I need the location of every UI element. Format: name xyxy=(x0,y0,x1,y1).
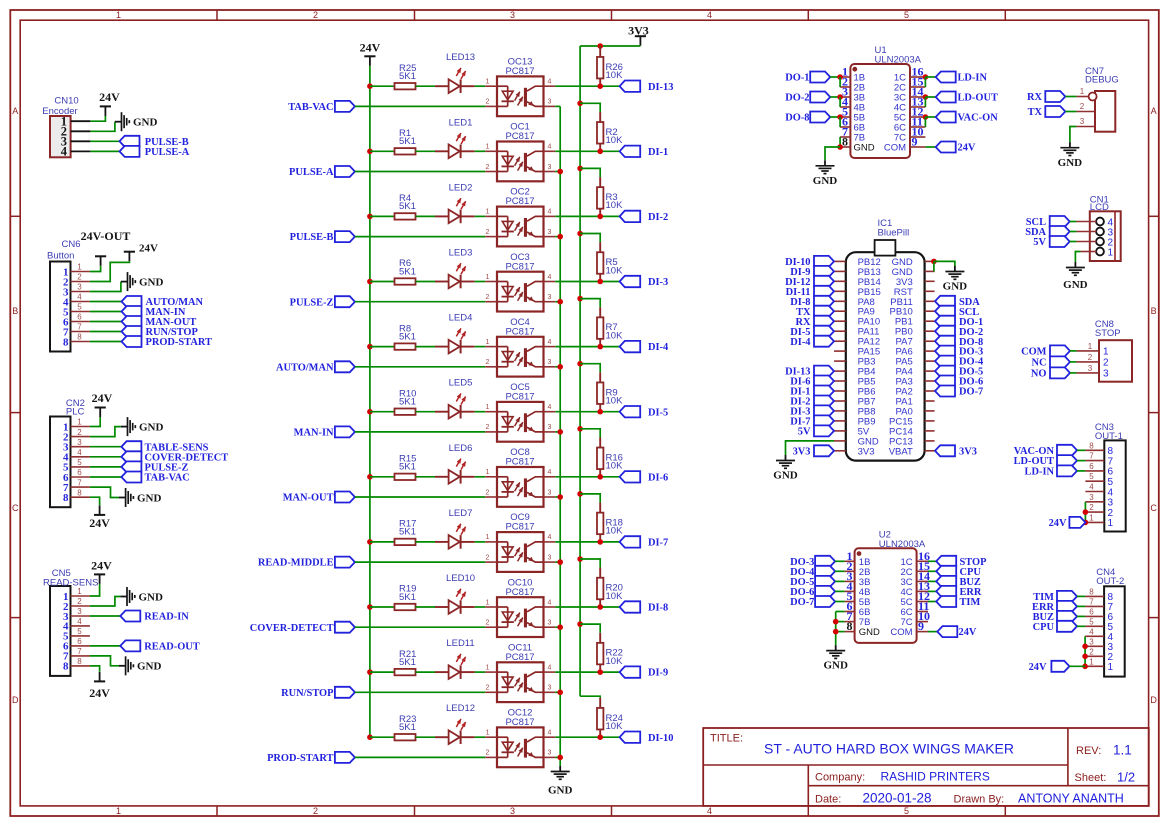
label OUT-2 xyxy=(1096,576,1124,587)
wire SDA to CN1 xyxy=(1070,231,1077,233)
net flag NO xyxy=(1031,367,1070,379)
pin 11 U2 xyxy=(917,599,930,613)
pin PB14 IC1 left xyxy=(834,280,846,282)
svg-text:3: 3 xyxy=(548,359,552,366)
pin 6 CN6 xyxy=(71,313,90,322)
LED LED1 xyxy=(435,117,475,158)
pin PA7 IC1 right xyxy=(925,340,935,342)
svg-text:STOP: STOP xyxy=(1095,328,1121,339)
pin PA12 IC1 left xyxy=(834,340,846,342)
net flag DI-13 at IC1 PB4 xyxy=(785,366,834,378)
pin 5 U2 xyxy=(845,589,855,603)
pin 13 U1 xyxy=(910,95,925,109)
label U2 xyxy=(879,530,891,541)
svg-text:6: 6 xyxy=(77,313,82,322)
net flag LD-OUT at U1 xyxy=(936,92,998,104)
svg-text:3: 3 xyxy=(1088,364,1093,373)
net flag DI-4 at IC1 PA12 xyxy=(790,336,834,348)
svg-text:RASHID PRINTERS: RASHID PRINTERS xyxy=(881,770,990,784)
LED LED3 xyxy=(435,248,475,289)
junction 24V rail ch9 xyxy=(367,669,373,675)
junction 3V3 feed R26 xyxy=(597,43,603,49)
pin 2 CN2 xyxy=(71,428,90,437)
wire OC12 pin4 to DI-10 xyxy=(555,736,619,738)
svg-text:3: 3 xyxy=(1089,637,1094,646)
net flag DO-5 at U2 xyxy=(790,576,835,588)
net flag DO-8 at IC1 PA7 xyxy=(935,336,983,348)
pin 4 U1 xyxy=(840,95,850,109)
wire VAC-ON to CN3 xyxy=(1077,449,1085,451)
svg-text:PROD-START: PROD-START xyxy=(267,753,333,764)
svg-text:9: 9 xyxy=(918,619,924,633)
pin 2 CN1 xyxy=(1076,241,1096,243)
svg-text:CN10: CN10 xyxy=(54,96,78,107)
wire CN7 pin3 to GND xyxy=(1070,127,1077,143)
pin PB12 IC1 left xyxy=(834,260,846,262)
connector CN7 xyxy=(1095,91,1115,132)
svg-text:PULSE-A: PULSE-A xyxy=(289,167,334,178)
wire U2 pin16 to STOP xyxy=(928,560,936,562)
svg-text:GND: GND xyxy=(548,785,573,797)
wire R8 to LED4 xyxy=(416,346,436,348)
svg-text:LCD: LCD xyxy=(1090,202,1109,213)
net flag DI-1 xyxy=(620,146,669,158)
svg-text:8: 8 xyxy=(77,488,82,497)
svg-text:8: 8 xyxy=(77,657,82,666)
wire PULSE-B to OC2 pin2 xyxy=(355,236,485,238)
LED LED10 xyxy=(435,573,475,614)
wire OC2 pin4 to DI-2 xyxy=(555,215,619,217)
net flag PULSE-Z input xyxy=(290,296,355,308)
svg-text:PC817: PC817 xyxy=(505,261,534,272)
svg-text:3V3: 3V3 xyxy=(959,446,977,457)
wire U2 pin15 to CPU xyxy=(928,570,936,572)
svg-text:4: 4 xyxy=(548,339,552,346)
net flag DI-13 xyxy=(620,81,674,93)
svg-text:DO-2: DO-2 xyxy=(785,93,809,104)
wire 24V to R17 xyxy=(370,541,395,543)
svg-text:3: 3 xyxy=(548,489,552,496)
svg-text:3V3: 3V3 xyxy=(628,23,649,37)
svg-text:24V: 24V xyxy=(91,559,112,573)
svg-text:D: D xyxy=(1150,695,1157,705)
svg-text:1: 1 xyxy=(486,730,490,737)
pin PB8 IC1 left xyxy=(834,410,846,412)
net flag TABLE-SENS at CN2 xyxy=(121,441,208,453)
svg-text:10K: 10K xyxy=(606,135,624,146)
junction CN3 pin2 xyxy=(1083,509,1089,515)
svg-text:1: 1 xyxy=(486,664,490,671)
wire DO-7 to U2 pin5 xyxy=(835,601,845,603)
net flag RX xyxy=(1027,91,1065,103)
ground at U2 xyxy=(823,645,848,671)
wire CN6 pin7 to RUN/STOP xyxy=(90,331,122,333)
svg-text:24V: 24V xyxy=(360,40,381,54)
junction U1 pin5 xyxy=(837,114,843,120)
LED LED12 xyxy=(435,703,475,744)
wire DO-2 to U1 pin3 xyxy=(830,96,840,98)
pin 8 CN5 xyxy=(71,657,90,666)
svg-text:DI-13: DI-13 xyxy=(648,82,673,93)
LED LED5 xyxy=(435,378,475,419)
net flag VAC-ON at U1 xyxy=(936,112,999,124)
net flag DO-6 at U2 xyxy=(790,586,835,598)
wire LED1 to OC1 pin1 xyxy=(475,150,486,152)
pin PB6 IC1 left xyxy=(834,390,846,392)
junction 3V3 rail ch1 xyxy=(577,101,583,107)
wire TIM to CN4 xyxy=(1077,595,1085,597)
wire DO-3 to U2 pin1 xyxy=(835,560,845,562)
net flag ERR at U2 xyxy=(936,586,982,598)
wire 3V3 rail to R18 xyxy=(580,494,600,503)
ground at CN10 xyxy=(115,112,158,131)
net flag DI-10 xyxy=(620,732,674,744)
svg-text:READ-IN: READ-IN xyxy=(144,612,189,623)
wire CN10 pin3 to PULSE-B xyxy=(90,140,119,142)
label ULN2003A U2 xyxy=(879,539,926,550)
net flag SDA at CN1 xyxy=(1025,226,1069,238)
pin numbers OC8 xyxy=(486,469,552,496)
wire OC13 pin4 to DI-13 xyxy=(555,85,619,87)
net flag DI-3 xyxy=(620,276,669,288)
svg-text:4: 4 xyxy=(548,730,552,737)
net flag TAB-VAC at CN2 xyxy=(121,472,189,484)
wire BUZ to CN4 xyxy=(1077,615,1085,617)
ground at CN2 upper xyxy=(121,417,164,436)
pin numbers OC4 xyxy=(486,339,552,366)
title block label Sheet: xyxy=(1075,772,1107,784)
net flag DI-9 xyxy=(620,666,669,678)
wire LED7 to OC9 pin1 xyxy=(475,541,486,543)
wire 24V to R23 xyxy=(370,736,395,738)
pin 8 CN2 xyxy=(71,488,90,497)
net flag TX xyxy=(1028,106,1066,118)
svg-text:READ-MIDDLE: READ-MIDDLE xyxy=(258,558,334,569)
svg-text:7: 7 xyxy=(1089,452,1094,461)
svg-text:DI-4: DI-4 xyxy=(790,337,810,348)
wire PROD-START to OC12 pin2 xyxy=(355,756,485,758)
wire U1 pin1 to pin2 xyxy=(839,77,841,87)
resistor R24 10K xyxy=(597,698,623,737)
wire CN6 pin2 to 24V xyxy=(90,261,129,281)
net flag NC xyxy=(1031,356,1070,368)
junction DI-8 xyxy=(597,604,603,610)
pin 3 U2 xyxy=(845,569,855,583)
resistor R7 10K xyxy=(597,307,623,346)
microcontroller IC1 BluePill xyxy=(846,240,925,461)
svg-text:GND: GND xyxy=(773,470,798,482)
ground at IC1 top right xyxy=(943,266,968,293)
wire U1 pin14 to pin13 xyxy=(924,97,926,107)
svg-text:1: 1 xyxy=(77,263,82,272)
svg-text:2: 2 xyxy=(1089,503,1094,512)
svg-text:GND: GND xyxy=(813,175,838,187)
junction 3V3 rail ch7 xyxy=(577,491,583,497)
svg-text:1: 1 xyxy=(486,209,490,216)
svg-text:6: 6 xyxy=(1089,462,1094,471)
optocoupler OC1 PC817 xyxy=(485,122,555,182)
junction 24V rail ch7 xyxy=(367,539,373,545)
label BluePill xyxy=(878,228,910,239)
connector CN3 xyxy=(1104,440,1125,531)
svg-text:ANTONY ANANTH: ANTONY ANANTH xyxy=(1018,792,1124,806)
ground at IC1 bottom left xyxy=(773,455,798,482)
svg-text:24V: 24V xyxy=(92,391,113,405)
svg-text:1: 1 xyxy=(1103,347,1109,358)
pin 4 U2 xyxy=(845,579,855,593)
pin numbers OC9 xyxy=(486,534,552,561)
wire U1 pin14 to LD-OUT xyxy=(925,96,935,98)
connector CN2 xyxy=(50,417,71,508)
svg-text:1/2: 1/2 xyxy=(1117,770,1135,785)
junction DI-9 xyxy=(597,669,603,675)
wire OC2 pin3 to bus xyxy=(555,236,560,238)
svg-text:4: 4 xyxy=(77,293,82,302)
resistor R8 5K1 xyxy=(395,323,416,350)
wire LD-IN to CN3 xyxy=(1077,470,1085,472)
svg-text:NC: NC xyxy=(1031,358,1046,369)
revision value 1.1 xyxy=(1113,743,1132,758)
pin 6 CN2 xyxy=(71,468,90,477)
pin 2 U1 xyxy=(840,75,850,89)
pin PA15 IC1 left xyxy=(834,350,846,352)
svg-text:1: 1 xyxy=(486,534,490,541)
svg-text:4: 4 xyxy=(548,599,552,606)
resistor R16 10K xyxy=(597,438,623,477)
net flag MAN-IN input xyxy=(294,426,355,438)
svg-text:DO-1: DO-1 xyxy=(785,73,809,84)
svg-text:10K: 10K xyxy=(606,461,624,472)
pin 1 CN6 xyxy=(71,263,90,272)
title block xyxy=(703,728,1149,806)
svg-text:D: D xyxy=(12,695,19,705)
pin 3 CN7 xyxy=(1076,117,1095,127)
pin PB13 IC1 left xyxy=(834,270,846,272)
wire U2 strap to pin8 xyxy=(836,631,845,633)
net flag CPU at U2 xyxy=(936,566,981,578)
junction 24V rail ch0 xyxy=(367,83,373,89)
svg-text:LD-OUT: LD-OUT xyxy=(958,93,998,104)
wire U1 pin7 to pin8 xyxy=(839,137,841,147)
pin 1 U2 xyxy=(845,549,855,563)
junction DI-3 xyxy=(597,279,603,285)
wire LED2 to OC2 pin1 xyxy=(475,215,486,217)
svg-text:3: 3 xyxy=(1089,493,1094,502)
svg-text:CPU: CPU xyxy=(1033,622,1055,633)
pin PB7 IC1 left xyxy=(834,400,846,402)
svg-text:5V: 5V xyxy=(798,427,811,438)
wire OC13 pin3 to bus xyxy=(555,105,560,107)
svg-text:1: 1 xyxy=(486,404,490,411)
net flag 3V3 at IC1 VBAT xyxy=(935,445,977,457)
svg-text:DI-1: DI-1 xyxy=(648,147,668,158)
net flag SCL at CN1 xyxy=(1026,216,1070,228)
wire NC to CN8 xyxy=(1070,361,1076,363)
net flag LD-IN at CN3 xyxy=(1025,465,1077,477)
net flag AUTO/MAN input xyxy=(276,361,355,373)
svg-text:TITLE:: TITLE: xyxy=(710,733,743,745)
net flag DI-2 at IC1 PB7 xyxy=(790,396,834,408)
wire CN2 pin1 to 24V xyxy=(90,417,100,427)
pin 2 CN4 xyxy=(1085,647,1104,656)
svg-text:5K1: 5K1 xyxy=(399,722,416,733)
svg-text:1: 1 xyxy=(486,79,490,86)
svg-text:10K: 10K xyxy=(606,330,624,341)
pin 1 CN3 xyxy=(1085,513,1104,522)
pin numbers OC1 xyxy=(486,144,552,171)
svg-text:GND: GND xyxy=(823,660,848,672)
wire PULSE-A to OC1 pin2 xyxy=(355,171,485,173)
wire LED6 to OC8 pin1 xyxy=(475,476,486,478)
junction U1 pin8 xyxy=(837,144,843,150)
svg-text:LED5: LED5 xyxy=(449,378,473,389)
junction DI-2 xyxy=(597,214,603,220)
wire U2 pins 6-7-8 strap to GND xyxy=(835,612,837,646)
junction emitter bus ch9 xyxy=(557,690,563,696)
power 24V at CN5 bottom xyxy=(89,672,110,700)
svg-text:4: 4 xyxy=(548,404,552,411)
wire DO-8 to U1 pin5 xyxy=(830,116,840,118)
junction DI-6 xyxy=(597,474,603,480)
wire CN5 pin3 to READ-IN xyxy=(90,615,120,617)
svg-text:LED12: LED12 xyxy=(446,703,475,714)
wire DO-5 to U2 pin3 xyxy=(835,580,845,582)
svg-text:1: 1 xyxy=(1089,657,1094,666)
ground at CN1 xyxy=(1063,262,1088,291)
pin PC13 IC1 right xyxy=(925,440,935,442)
wire 24V to R4 xyxy=(370,215,395,217)
svg-text:Button: Button xyxy=(47,251,74,262)
wire DO-6 to U2 pin4 xyxy=(835,590,845,592)
wire TAB-VAC to OC13 pin2 xyxy=(355,105,485,107)
svg-text:3: 3 xyxy=(548,554,552,561)
junction 3V3 rail ch8 xyxy=(577,556,583,562)
label READ-SENS xyxy=(43,578,98,589)
net flag PULSE-B xyxy=(120,136,189,148)
svg-text:4: 4 xyxy=(548,144,552,151)
pin 1 CN8 xyxy=(1076,342,1099,351)
wire RUN/STOP to OC11 pin2 xyxy=(355,691,485,693)
net flag BUZ at U2 xyxy=(936,576,981,588)
svg-text:8: 8 xyxy=(847,619,853,633)
svg-text:5K1: 5K1 xyxy=(399,331,416,342)
wire 3V3 rail to R3 xyxy=(580,168,600,177)
pin 2 CN5 xyxy=(71,597,90,606)
junction 3V3 rail ch3 xyxy=(577,231,583,237)
wire LED10 to OC10 pin1 xyxy=(475,606,486,608)
wire U1 pin16 to LD-IN xyxy=(925,76,935,78)
pin PA4 IC1 right xyxy=(925,370,935,372)
junction 24V rail ch1 xyxy=(367,149,373,155)
wire LED13 to OC13 pin1 xyxy=(475,85,486,87)
wire CN2 pin3 to TABLE-SENS xyxy=(90,446,122,448)
pin 8 U2 xyxy=(845,619,855,633)
net flag DI-7 at IC1 PB9 xyxy=(790,415,834,427)
net flag DI-8 xyxy=(620,601,669,613)
label CN3 xyxy=(1095,422,1114,433)
pin PA2 IC1 right xyxy=(925,390,935,392)
svg-text:PC817: PC817 xyxy=(505,326,534,337)
label CN8 xyxy=(1095,319,1114,330)
net flag PULSE-A input xyxy=(289,166,355,178)
junction emitter bus ch4 xyxy=(557,364,563,370)
svg-text:PC817: PC817 xyxy=(505,66,534,77)
svg-text:10K: 10K xyxy=(606,70,624,81)
svg-text:7: 7 xyxy=(77,647,82,656)
wire R1 to LED1 xyxy=(416,150,436,152)
svg-text:PC817: PC817 xyxy=(505,522,534,533)
power 24V at CN2 top xyxy=(92,391,113,417)
net flag DO-7 at IC1 PA2 xyxy=(935,386,983,398)
pin PC15 IC1 right xyxy=(925,420,935,422)
svg-text:10K: 10K xyxy=(606,200,624,211)
svg-text:3: 3 xyxy=(548,294,552,301)
wire AUTO/MAN to OC4 pin2 xyxy=(355,366,485,368)
power 3V3 at opto column xyxy=(628,23,649,45)
wire LED12 to OC12 pin1 xyxy=(475,736,486,738)
wire OC4 pin4 to DI-4 xyxy=(555,346,619,348)
svg-text:2: 2 xyxy=(486,489,490,496)
svg-text:GND: GND xyxy=(133,117,158,129)
svg-text:10K: 10K xyxy=(606,526,624,537)
wire IC1 GND pins tie xyxy=(933,261,935,271)
svg-text:5K1: 5K1 xyxy=(399,266,416,277)
svg-text:TX: TX xyxy=(1028,107,1043,118)
svg-text:LED10: LED10 xyxy=(446,573,475,584)
pin PB1 IC1 right xyxy=(925,320,935,322)
svg-text:Encoder: Encoder xyxy=(42,106,77,117)
svg-text:4: 4 xyxy=(548,274,552,281)
wire 3V3 rail to R9 xyxy=(580,364,600,373)
wire CN6 pin6 to MAN-OUT xyxy=(90,321,122,323)
svg-text:3V3: 3V3 xyxy=(858,446,875,457)
svg-text:DI-5: DI-5 xyxy=(648,407,668,418)
net flag DI-6 xyxy=(620,471,669,483)
resistor R19 5K1 xyxy=(395,584,417,611)
svg-text:10K: 10K xyxy=(606,396,624,407)
svg-text:DO-8: DO-8 xyxy=(785,113,809,124)
wire CN5 pin2 to GND xyxy=(90,597,121,607)
label CN5 xyxy=(52,568,71,579)
svg-text:8: 8 xyxy=(63,661,69,673)
label STOP xyxy=(1095,328,1121,339)
pin 2 CN3 xyxy=(1085,503,1104,512)
wire CN10 pin2 to GND xyxy=(90,122,115,132)
pin 7 CN5 xyxy=(71,647,90,656)
wire 24V to R19 xyxy=(370,606,395,608)
wire OC8 pin3 to bus xyxy=(555,496,560,498)
svg-text:B: B xyxy=(12,306,18,316)
svg-text:PC817: PC817 xyxy=(505,717,534,728)
resistor R2 10K xyxy=(597,112,623,151)
net flag DO-3 at U2 xyxy=(790,556,835,568)
net flag DI-2 xyxy=(620,211,669,223)
wire LED3 to OC3 pin1 xyxy=(475,281,486,283)
net flag DO-1 at IC1 PB1 xyxy=(935,316,983,328)
wire OC11 pin3 to bus xyxy=(555,691,560,693)
svg-text:RX: RX xyxy=(1027,92,1043,103)
wire R4 to LED2 xyxy=(416,215,436,217)
svg-text:LED2: LED2 xyxy=(449,182,473,193)
ground at CN5 lower xyxy=(119,656,162,675)
svg-text:2: 2 xyxy=(77,597,82,606)
net flag STOP at U2 xyxy=(936,556,987,568)
svg-text:TAB-VAC: TAB-VAC xyxy=(288,102,333,113)
svg-text:4: 4 xyxy=(707,806,712,816)
net flag TAB-VAC input xyxy=(288,101,355,113)
pin RST IC1 right xyxy=(925,290,935,292)
wire READ-MIDDLE to OC9 pin2 xyxy=(355,561,485,563)
